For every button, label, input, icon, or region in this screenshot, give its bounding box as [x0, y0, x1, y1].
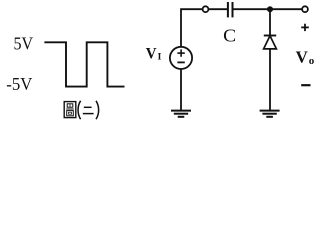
- paren right: [96, 101, 99, 119]
- ground right: [260, 111, 280, 117]
- diode D triangle: [264, 36, 277, 49]
- node open terminal on top wire: [203, 6, 209, 12]
- glyph 二 strokes: [84, 106, 92, 108]
- output open terminal: [302, 6, 308, 12]
- glyph 圖 inner top box: [67, 104, 73, 107]
- wire source bottom to ground: [180, 69, 182, 111]
- wire junction to diode: [269, 9, 271, 35]
- voltage source VI circle: [170, 47, 192, 69]
- svg-text:V: V: [146, 46, 157, 63]
- paren left: [78, 101, 81, 119]
- svg-text:V: V: [296, 48, 309, 67]
- wire capacitor to output terminal: [234, 8, 303, 10]
- output plus label: [301, 24, 309, 31]
- wire diode to ground: [269, 49, 271, 111]
- glyph 圖 bottom box: [67, 111, 74, 116]
- wire source top to corner: [181, 9, 203, 47]
- capacitor C plates: [227, 2, 229, 17]
- glyph 圖 middle line: [66, 108, 74, 110]
- ground left: [171, 111, 191, 117]
- svg-text:I: I: [158, 52, 162, 62]
- glyph 圖 outer box: [64, 102, 76, 118]
- waveform Vi square wave: [44, 42, 124, 86]
- diode D cathode bar: [264, 35, 276, 37]
- svg-text:5V: 5V: [14, 34, 34, 54]
- source minus sign: [177, 61, 184, 63]
- wire node to capacitor: [208, 8, 227, 10]
- svg-text:o: o: [309, 55, 315, 67]
- output minus label: [301, 84, 310, 86]
- junction dot: [267, 6, 273, 12]
- svg-text:-5V: -5V: [6, 74, 32, 94]
- source plus sign: [177, 49, 184, 56]
- caption 圖(二): [64, 101, 98, 119]
- svg-text:C: C: [223, 26, 236, 46]
